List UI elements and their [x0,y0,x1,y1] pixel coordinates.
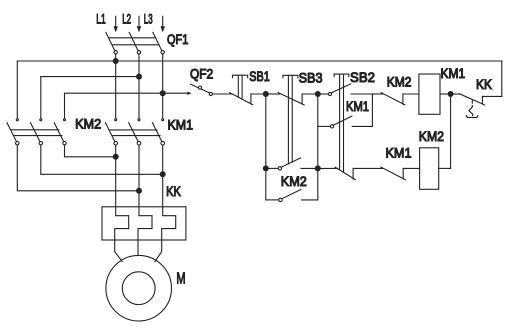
junction dot node E [315,165,321,171]
svg-text:KM2: KM2 [75,115,101,131]
junction dot swap/phase3 [160,171,166,177]
wire phase3 vertical to KK [162,145,164,207]
wire KM1 NC to KM2 coil [403,167,419,169]
wire L3 incoming arrow [162,16,164,27]
svg-text:QF2: QF2 [190,65,213,81]
junction dot node A [263,91,269,97]
wire SB2 NC to KM1 NC [353,167,382,169]
thermal relay KK heater box [102,207,186,240]
wire node C to KK contact [451,93,460,95]
pushbutton SB2 plunger [334,74,349,77]
junction dot swap/phase2 [136,188,142,194]
wire phase 3 vertical (QF1 to KM1 bank) [162,54,164,119]
wire KM2 NC to KM1 coil [403,93,419,95]
wire KM2 pole1 top stub [16,61,18,119]
junction dot phase3 branch [160,90,166,96]
pushbutton SB3 NC contact blade [278,93,304,105]
breaker QF1 pole 2 [129,32,138,50]
wire top rail L1 (feeds KM2 pole 1 and control return) [17,60,502,62]
wire SB3 NO right [301,167,318,169]
svg-text:KM1: KM1 [386,144,412,160]
breaker QF1 pole 1 [106,32,115,50]
wire node A vertical (to rows 3-4) [265,94,267,200]
svg-text:KK: KK [166,183,181,199]
pushbutton SB2 NC riser [352,168,354,179]
wire KK to right return [482,95,501,97]
motor M outer circle [106,255,172,321]
wire L1 incoming arrow [115,16,117,27]
svg-text:KM1: KM1 [346,98,369,114]
wire node B vertical (to rows 2-4) [317,94,319,200]
wire SB2 NO right terminal [351,93,372,95]
contactor KM2 linkage bars [12,129,59,131]
wire row2 left [318,125,331,127]
junction dot node B [315,91,321,97]
wire L3 branch to KM2 pole 3 and control line [65,92,190,94]
wire KM2 coil return riser [450,94,452,168]
contactor KM1 main pole 3 [162,119,164,121]
breaker QF1 pole 3 [153,32,162,50]
wire KM2 pole2 bottom to phase3 (swap) [41,145,163,174]
svg-text:M: M [176,271,185,288]
wire KM1 coil to node C [440,93,451,95]
wire motor lead 3 [155,240,162,262]
svg-text:SB1: SB1 [249,68,270,84]
svg-text:KM2: KM2 [387,74,412,90]
contactor KM1 self-hold NO contact [330,125,333,128]
pushbutton SB2 NC blade [335,167,355,180]
wire KM2 coil right [439,167,451,169]
thermal relay KK actuator [469,107,473,116]
pushbutton SB2 NO contact [328,92,331,95]
wire row4 right [302,199,318,201]
wire phase 1 vertical (QF1 to KM1 bank) [115,54,117,119]
coil KM2 [420,148,439,190]
junction dot node C [448,91,454,97]
wire node D to SB3 NO [266,167,279,169]
wire phase 2 vertical (QF1 to KM1 bank) [138,54,140,119]
wire L2 branch to KM2 pole 2 [41,76,139,78]
pushbutton SB1 plunger [233,75,248,78]
contactor KM2 NC interlock blade [381,93,405,105]
pushbutton SB3 NC riser [301,94,303,104]
pushbutton SB1 riser [250,94,252,104]
wire row2 right [352,125,372,127]
contactor KM2 main pole 3 [64,119,66,121]
contactor KM2 main pole 2 [40,119,42,121]
junction dot node D [263,165,269,171]
breaker QF2 blade [191,84,211,93]
contactor KM2 NC riser [402,94,404,104]
wire L2 incoming arrow [138,16,140,27]
contactor KM1 main pole 2 [138,119,140,121]
thermal relay KK NC contact blade [459,94,484,105]
svg-text:SB2: SB2 [350,69,375,85]
junction dot swap/phase1 [113,154,119,160]
wire motor lead 1 [115,240,123,262]
coil KM1 [419,74,440,114]
wire QF2 to SB1 [212,93,231,95]
wire KM2 pole1 bottom to phase2 (swap) [17,145,139,191]
svg-text:L2: L2 [122,11,131,27]
wire node B to SB2 NO [318,93,329,95]
wire right return riser to top rail [501,61,503,96]
wire KM2 pole2 top stub [40,77,42,119]
wire node E to SB2 NC [318,167,337,169]
pushbutton SB3 NO contact [278,167,281,170]
contactor KM1 linkage bars [110,129,157,131]
svg-text:KM2: KM2 [281,173,307,189]
contactor KM2 self-hold NO contact [279,198,282,201]
contactor KM1 NC interlock blade [381,167,405,180]
svg-text:KM1: KM1 [441,65,466,81]
breaker QF1 linkage bars [109,37,156,39]
thermal relay KK NC riser [481,96,483,104]
contactor KM1 main pole 1 [115,119,117,121]
wire phase2 vertical to KK [138,145,140,207]
svg-text:KM1: KM1 [168,116,194,132]
wire riser to KM2 NC [372,93,382,95]
wire SB1 to node A [251,93,266,95]
pushbutton SB1 NC contact blade [230,93,253,105]
junction dot phase1 / top rail [113,58,119,64]
wire motor lead 2 [137,240,139,256]
svg-text:KK: KK [476,76,493,92]
motor M inner circle [122,272,155,305]
wire node A to SB3 NC [266,93,280,95]
contactor KM1 NC riser [402,168,404,179]
svg-text:QF1: QF1 [167,31,188,47]
wire KM2 pole3 top stub [64,93,66,119]
thermal relay KK actuator link (dashed) [471,101,473,107]
wire KM2 pole3 bottom to phase1 (swap) [65,145,116,157]
wire parallel-branch right riser [371,94,373,126]
wire SB3 NC to node B [302,93,318,95]
junction dot phase2 branch [136,74,142,80]
breaker QF2 fixed contact arrow [187,92,191,95]
svg-text:SB3: SB3 [299,69,323,85]
wire row4 left [266,199,279,201]
svg-text:L1: L1 [96,11,106,27]
contactor KM2 main pole 1 [16,119,18,121]
KK heater element phase 1 [115,207,129,240]
pushbutton SB3 plunger [283,75,298,78]
wire phase1 vertical to KK [115,145,117,207]
KK heater element phase 3 [162,207,176,240]
svg-text:L3: L3 [144,11,153,27]
KK heater element phase 2 [138,207,152,240]
svg-text:KM2: KM2 [419,128,444,144]
